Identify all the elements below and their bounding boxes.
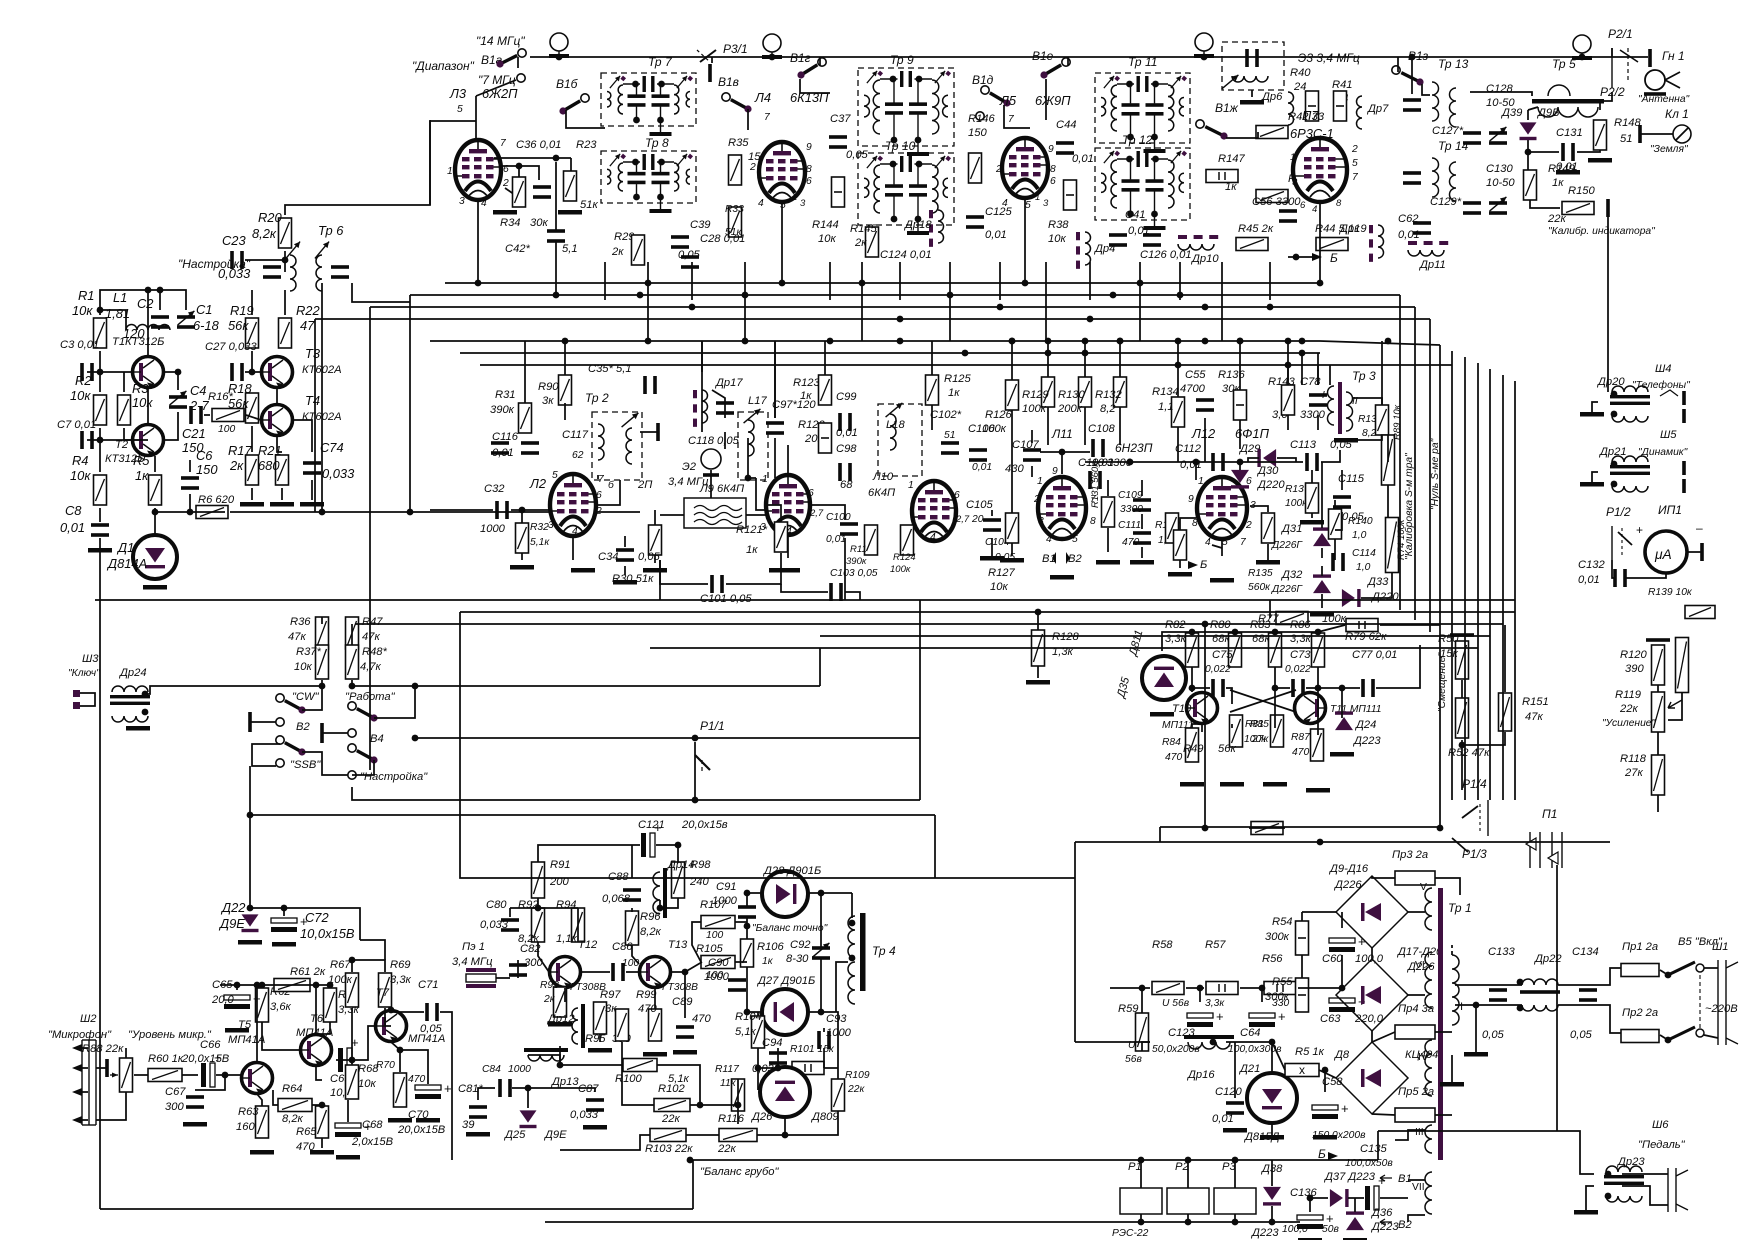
- svg-text:47к: 47к: [1525, 711, 1543, 723]
- wire: [1380, 624, 1440, 626]
- choke Dr11: [1408, 241, 1448, 256]
- wire: [1275, 667, 1290, 688]
- wire: [351, 1008, 353, 1064]
- resistor Rk: [649, 525, 662, 555]
- wire: [220, 984, 237, 986]
- d: [1451, 945, 1453, 955]
- svg-text:22к: 22к: [1547, 213, 1566, 225]
- svg-text:Д9-Д16: Д9-Д16: [1328, 863, 1369, 875]
- svg-text:IV: IV: [1418, 1052, 1428, 1063]
- mark: [1660, 390, 1678, 396]
- svg-text:+: +: [1216, 1009, 1224, 1024]
- resistor R86: [1312, 633, 1325, 667]
- fuse Pr3: [1395, 871, 1435, 885]
- wire: [1408, 1215, 1425, 1222]
- svg-text:560к: 560к: [1248, 582, 1271, 593]
- svg-text:Др21: Др21: [1598, 446, 1627, 458]
- svg-text:10к: 10к: [1048, 233, 1066, 245]
- svg-text:П7: П7: [1302, 108, 1319, 123]
- resistor R136: [1234, 390, 1247, 420]
- wire: [1530, 200, 1560, 208]
- wire: [99, 508, 101, 522]
- wire: [1334, 500, 1336, 509]
- diode D27: [762, 989, 808, 1035]
- svg-text:R120: R120: [1620, 649, 1648, 661]
- wire: [1180, 518, 1196, 530]
- svg-text:Р2/2: Р2/2: [1600, 85, 1625, 99]
- wire: [624, 536, 626, 547]
- svg-text:0,01: 0,01: [1072, 153, 1094, 165]
- wire: [99, 538, 101, 540]
- capacitor C4 trim: [169, 395, 187, 409]
- svg-text:R144: R144: [812, 219, 839, 231]
- wire: [527, 1088, 529, 1108]
- wire: [256, 985, 258, 1062]
- svg-text:0,022: 0,022: [1205, 664, 1231, 675]
- wire: [460, 612, 935, 878]
- choke Dr18: [929, 210, 944, 247]
- svg-text:430: 430: [1005, 463, 1024, 475]
- svg-text:39: 39: [462, 1119, 474, 1131]
- svg-text:8,2: 8,2: [1362, 428, 1377, 439]
- transistor T3: [261, 357, 293, 388]
- capacitor C66: [201, 1050, 222, 1087]
- b: [1644, 92, 1666, 96]
- wire: [1187, 1214, 1189, 1222]
- svg-text:В1д: В1д: [972, 73, 994, 87]
- resistor R104: [752, 1016, 765, 1048]
- resistor R95: [594, 1002, 607, 1034]
- svg-text:С107: С107: [1012, 439, 1040, 451]
- svg-text:100: 100: [218, 424, 235, 435]
- capacitor C6: [181, 476, 199, 490]
- wire: [1657, 644, 1659, 646]
- wire: [1411, 57, 1413, 94]
- svg-text:"Микрофон": "Микрофон": [48, 1029, 112, 1041]
- wire: [701, 420, 703, 432]
- wire: [1142, 1042, 1150, 1051]
- capacitor C2: [151, 315, 169, 329]
- wire drop: [1089, 262, 1091, 300]
- Sh2: [81, 1040, 83, 1125]
- svg-text:С126 0,01: С126 0,01: [1140, 249, 1192, 261]
- capacitor C125: [966, 215, 984, 229]
- wire: [1177, 427, 1179, 462]
- resistor R103: [650, 1129, 686, 1142]
- svg-text:10к: 10к: [818, 233, 836, 245]
- Tr2 w2: [626, 428, 632, 464]
- ground: [126, 726, 150, 731]
- svg-text:22к: 22к: [847, 1084, 865, 1095]
- svg-text:Д226Г: Д226Г: [1271, 540, 1303, 551]
- resistor R34: [513, 177, 526, 207]
- capacitor C78: [1309, 393, 1327, 407]
- svg-text:С129*: С129*: [1430, 196, 1462, 208]
- wire: [659, 560, 661, 600]
- resistor R106: [741, 939, 754, 967]
- resistor R79: [1346, 619, 1378, 632]
- wire: [1317, 365, 1319, 385]
- wire drop: [999, 262, 1001, 300]
- wire: [1318, 625, 1345, 632]
- wire: [1199, 988, 1201, 1002]
- ground: [980, 556, 1004, 561]
- svg-text:С37: С37: [830, 113, 851, 125]
- resistor R87: [1311, 729, 1324, 761]
- svg-text:62: 62: [572, 450, 584, 461]
- wire: [1387, 435, 1389, 462]
- svg-text:R58: R58: [1152, 939, 1173, 951]
- svg-text:I: I: [1322, 390, 1325, 401]
- wire bus up3: [370, 306, 1415, 308]
- wire: [1422, 84, 1430, 95]
- Tr6 w1: [290, 255, 296, 291]
- svg-text:5: 5: [1222, 537, 1228, 548]
- resistor R20: [279, 218, 292, 248]
- wire: [1475, 1005, 1477, 1052]
- switch B1zh: [1196, 120, 1228, 140]
- wire: [1160, 826, 1440, 828]
- wire: [1306, 667, 1318, 688]
- wire: [836, 962, 848, 1012]
- ground: [510, 565, 534, 570]
- wire: [631, 908, 633, 912]
- svg-text:"Антенна": "Антенна": [1638, 94, 1691, 105]
- lamp L4n: [1572, 35, 1592, 60]
- capacitor C94: [769, 1051, 787, 1065]
- Dr21: [1610, 456, 1650, 492]
- svg-text:~220В: ~220В: [1705, 1003, 1738, 1015]
- resistor R67: [346, 973, 359, 1007]
- arrow: [1188, 561, 1198, 569]
- wire: [164, 412, 178, 440]
- svg-text:С111: С111: [1118, 520, 1141, 531]
- svg-text:R38: R38: [1048, 219, 1069, 231]
- svg-text:+: +: [1341, 1101, 1349, 1116]
- svg-text:Др17: Др17: [714, 377, 743, 389]
- svg-text:6Р3С-1: 6Р3С-1: [1290, 126, 1334, 141]
- wire mains top: [1455, 984, 1522, 986]
- resistor Rx: [1174, 530, 1187, 560]
- wire: [1187, 1160, 1189, 1188]
- svg-text:R32: R32: [530, 522, 549, 533]
- wire: [252, 744, 280, 766]
- svg-text:6К4П: 6К4П: [868, 487, 896, 499]
- wire top rail A: [530, 56, 1648, 58]
- wire: [671, 972, 685, 1018]
- wire bus mid3: [480, 364, 1310, 366]
- ground: [336, 1155, 360, 1160]
- transformer Tr10: [858, 153, 954, 235]
- wire: [82, 1091, 88, 1093]
- svg-text:В1: В1: [1398, 1173, 1412, 1185]
- wire: [1031, 430, 1033, 443]
- svg-text:R131 560к: R131 560к: [1090, 462, 1101, 508]
- resistor R50: [1456, 641, 1469, 679]
- wire: [1248, 458, 1259, 462]
- wire: [737, 1105, 739, 1118]
- bridge D8: [1336, 1042, 1408, 1114]
- wire: [1527, 152, 1529, 170]
- svg-text:R19: R19: [230, 303, 254, 318]
- svg-text:С68: С68: [362, 1119, 383, 1131]
- wire: [1301, 353, 1303, 385]
- transformer Tr7: [601, 73, 696, 136]
- wire: [934, 814, 936, 816]
- wire: [1011, 341, 1013, 380]
- capacitor C63: [1329, 994, 1366, 1012]
- relay P3: [1214, 1188, 1256, 1214]
- wire: [310, 985, 330, 988]
- wire: [511, 509, 550, 511]
- svg-text:1,0: 1,0: [1352, 530, 1367, 541]
- sw: [1668, 962, 1695, 975]
- svg-text:П1: П1: [1542, 807, 1557, 821]
- svg-text:1,0: 1,0: [1356, 562, 1371, 573]
- capacitor C109x: [1133, 498, 1151, 512]
- wire right bundle: [1502, 375, 1504, 800]
- wire left vert: [99, 540, 101, 1209]
- capacitor C117a: [521, 441, 539, 455]
- wire: [1239, 420, 1241, 449]
- wire: [694, 788, 696, 800]
- capacitor C129: [1463, 201, 1481, 215]
- svg-text:56в: 56в: [1125, 1054, 1142, 1065]
- resistor R126: [1006, 380, 1019, 410]
- svg-text:R60 1к: R60 1к: [148, 1053, 184, 1065]
- lever: [1462, 806, 1478, 818]
- tube L10 6K4P: [912, 481, 956, 541]
- pin: [1682, 479, 1686, 493]
- wire: [1212, 545, 1222, 548]
- capacitor C121: [641, 820, 662, 857]
- wire: [1435, 878, 1460, 895]
- wire: [1704, 1035, 1718, 1038]
- wire: [1341, 470, 1343, 490]
- capacitor C124x: [681, 255, 699, 269]
- capacitor C92 trim: [812, 946, 830, 960]
- wire: [692, 922, 701, 962]
- wire: [1435, 1031, 1452, 1033]
- wire: [1361, 572, 1392, 598]
- wire: [285, 120, 430, 215]
- capacitor C118: [716, 401, 734, 415]
- svg-text:R136: R136: [1218, 369, 1246, 381]
- wire: [701, 341, 703, 420]
- ground: [1220, 782, 1244, 787]
- resistor R97: [616, 1009, 629, 1041]
- wire: [1329, 365, 1331, 385]
- choke Dr6: [1288, 92, 1294, 125]
- wire: [82, 1047, 88, 1049]
- svg-text:R106: R106: [757, 941, 785, 953]
- wire: [787, 535, 789, 558]
- svg-text:R16*: R16*: [208, 391, 234, 403]
- b: [703, 473, 719, 477]
- wire: [249, 766, 251, 815]
- wire: [249, 815, 251, 908]
- wire: [1296, 461, 1303, 463]
- wire bottom rail3: [690, 1159, 1378, 1161]
- svg-text:R85: R85: [1250, 719, 1269, 730]
- svg-text:R56: R56: [1262, 953, 1283, 965]
- Tr4 w2: [848, 962, 855, 1004]
- ground: [1210, 578, 1234, 583]
- svg-text:С103 0,05: С103 0,05: [830, 568, 878, 579]
- ground: [143, 585, 167, 590]
- wire: [784, 1067, 786, 1068]
- wire: [1311, 513, 1313, 518]
- lamp L2n: [762, 34, 782, 59]
- wire: [1408, 994, 1425, 996]
- wire drop2: [1045, 300, 1047, 341]
- wire: [747, 892, 762, 894]
- wire: [845, 592, 860, 600]
- svg-text:Д814А: Д814А: [106, 556, 147, 571]
- svg-text:R45 2к: R45 2к: [1238, 223, 1274, 235]
- wire: [352, 685, 415, 687]
- resistor R70: [394, 1073, 407, 1107]
- svg-text:20,0х15В: 20,0х15В: [181, 1053, 230, 1065]
- svg-text:Пр4 3а: Пр4 3а: [1398, 1003, 1434, 1015]
- ground: [270, 502, 294, 507]
- resistor R49: [1251, 822, 1283, 835]
- diode D28: [762, 871, 808, 917]
- svg-text:4: 4: [1312, 204, 1317, 215]
- ground: [1223, 1128, 1247, 1133]
- wire: [690, 1079, 738, 1105]
- svg-text:Т3: Т3: [305, 346, 321, 361]
- wire bus low1: [95, 599, 1515, 601]
- svg-text:R129: R129: [1022, 389, 1049, 401]
- svg-text:6: 6: [1050, 176, 1056, 187]
- svg-text:5: 5: [1072, 534, 1078, 545]
- svg-text:С41: С41: [1125, 209, 1146, 221]
- capacitor C71: [425, 1003, 439, 1021]
- capacitor C23: [230, 251, 244, 269]
- lamp L3n: [1194, 33, 1214, 58]
- wire: [1045, 79, 1047, 120]
- svg-text:11к: 11к: [720, 1078, 737, 1089]
- wire: [1557, 1131, 1594, 1174]
- svg-text:Р3/1: Р3/1: [723, 42, 748, 56]
- svg-text:"Диапазон": "Диапазон": [412, 59, 475, 73]
- svg-text:"Смещение": "Смещение": [1437, 652, 1448, 712]
- svg-text:R127: R127: [988, 567, 1016, 579]
- svg-text:R150: R150: [1568, 185, 1596, 197]
- svg-text:3: 3: [548, 520, 554, 531]
- svg-text:С120: С120: [1215, 1086, 1243, 1098]
- Tr13 w2: [1450, 88, 1456, 127]
- svg-text:R83: R83: [1250, 619, 1271, 631]
- svg-text:R102: R102: [658, 1083, 686, 1095]
- svg-text:5: 5: [780, 200, 786, 211]
- b: [1638, 125, 1642, 143]
- wire: [1269, 600, 1271, 618]
- b: [1725, 960, 1727, 1045]
- ground: [1588, 158, 1612, 163]
- svg-text:Д26: Д26: [750, 1111, 773, 1123]
- diode D30: [1231, 470, 1249, 489]
- wire: [1024, 200, 1026, 283]
- relay P2: [1167, 1188, 1209, 1214]
- resistor R65: [316, 1106, 329, 1138]
- svg-text:Др19: Др19: [1338, 223, 1367, 235]
- capacitor C21: [189, 406, 203, 424]
- svg-text:Д223: Д223: [1352, 735, 1381, 747]
- svg-text:R23: R23: [576, 139, 597, 151]
- capacitor C132: [1613, 569, 1627, 587]
- wire: [429, 121, 431, 205]
- resistor R100: [623, 1059, 657, 1072]
- svg-text:R147: R147: [1218, 153, 1246, 165]
- wire: [774, 341, 776, 418]
- capacitor C72: [271, 914, 308, 932]
- wire: [302, 686, 322, 710]
- transistor T6: [300, 1035, 332, 1066]
- wire: [701, 341, 703, 372]
- svg-text:R103 22к: R103 22к: [645, 1143, 693, 1155]
- wire: [1462, 732, 1505, 745]
- svg-text:2: 2: [1033, 494, 1040, 505]
- wire: [1301, 955, 1303, 978]
- wire: [1301, 912, 1303, 921]
- wire: [1395, 1130, 1425, 1140]
- svg-text:3: 3: [800, 198, 806, 209]
- svg-text:С112: С112: [1175, 443, 1202, 455]
- svg-text:"Баланс точно": "Баланс точно": [752, 923, 829, 934]
- wire right bundle: [1489, 369, 1491, 800]
- svg-text:+: +: [1278, 1009, 1286, 1024]
- svg-text:4: 4: [1046, 534, 1052, 545]
- wire: [1159, 827, 1161, 842]
- resistor R116: [719, 1129, 757, 1142]
- capacitor C112: [1211, 453, 1225, 471]
- ground: [1300, 520, 1324, 525]
- wire: [1408, 911, 1425, 913]
- wire: [284, 290, 286, 315]
- capacitor C42s: [533, 185, 551, 199]
- svg-text:390к: 390к: [490, 404, 515, 416]
- resistor R18: [246, 393, 259, 423]
- wire: [746, 893, 748, 906]
- wire: [654, 555, 656, 563]
- wire: [1687, 551, 1702, 553]
- wire: [1592, 402, 1598, 412]
- svg-text:3: 3: [1043, 198, 1049, 209]
- resistor R132: [1114, 377, 1127, 407]
- wire: [134, 1074, 148, 1076]
- resistor R134: [1172, 397, 1185, 427]
- ground: [1310, 612, 1334, 617]
- svg-text:R5 1к: R5 1к: [1295, 1046, 1325, 1058]
- svg-text:0,033: 0,033: [322, 466, 355, 481]
- wire: [1204, 624, 1206, 828]
- wire: [1110, 987, 1150, 989]
- svg-text:Д31: Д31: [1280, 523, 1302, 535]
- svg-text:R86: R86: [1290, 619, 1311, 631]
- svg-text:x: x: [1299, 1063, 1305, 1077]
- svg-text:150: 150: [968, 127, 987, 139]
- wire: [1346, 435, 1382, 440]
- svg-text:200к: 200к: [1057, 403, 1083, 415]
- wire: [748, 477, 756, 479]
- svg-text:R65: R65: [296, 1126, 317, 1138]
- wire: [1317, 353, 1319, 385]
- svg-text:L17: L17: [748, 395, 767, 407]
- svg-text:R82: R82: [1165, 619, 1186, 631]
- capacitor C111: [1133, 531, 1151, 545]
